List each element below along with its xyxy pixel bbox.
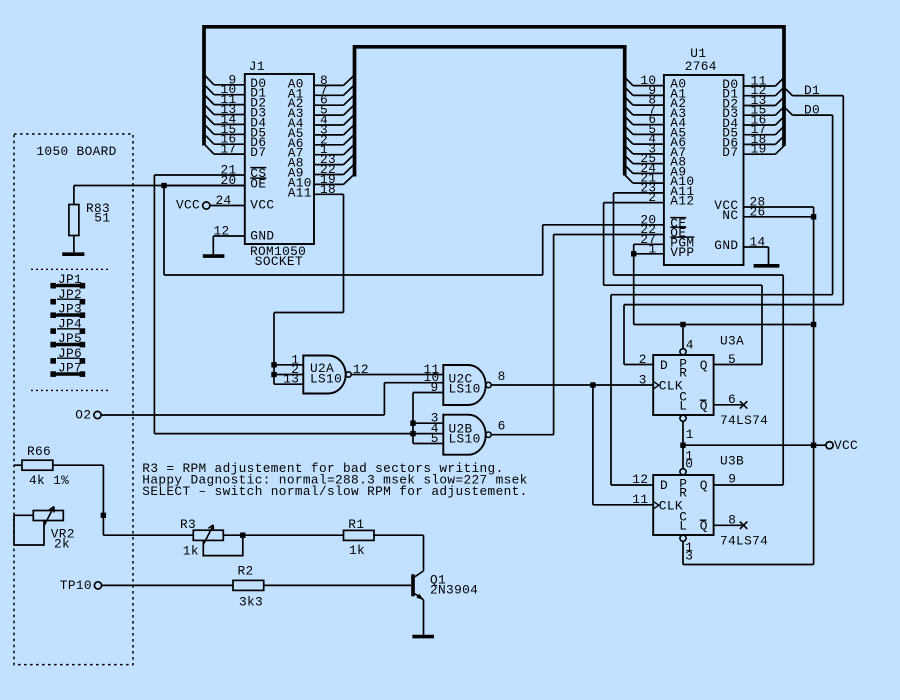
svg-text:2N3904: 2N3904 [430,583,478,598]
svg-text:8: 8 [498,369,506,384]
U1 pin 27 PGM lead (active-low) [634,232,695,251]
U1 pin 8 A2 lead with bus entry [624,93,686,112]
svg-text:D7: D7 [250,145,266,160]
J1 pin 6 A2 lead with bus entry [288,93,355,112]
U1 pin 16 D4 lead with bus entry [722,113,784,132]
U2C pin labels 11 10 9 8 [424,362,506,395]
U2A pin labels 1 2 13 12 [283,352,369,386]
svg-text:GND: GND [714,238,738,253]
jumper JP3 (closed) [50,302,85,318]
svg-text:3: 3 [685,549,693,564]
U3B pin 8 no-connect [714,522,748,529]
resistor R66 4k 1% [14,444,69,488]
svg-text:LS10: LS10 [310,371,342,386]
svg-text:74LS74: 74LS74 [720,413,768,428]
svg-text:GND: GND [250,229,274,244]
J1 pin 4 A4 lead with bus entry [288,113,355,132]
resistor R1 1k [344,517,375,558]
U3A pin labels 2 3 5 6 [639,352,736,407]
svg-text:19: 19 [751,142,767,157]
U1 pin 24 A9 lead with bus entry [624,161,686,180]
ground symbol below R83 [62,252,84,256]
ground symbol at U1 GND [754,264,780,268]
U1 pin 26 NC lead [722,204,813,223]
svg-text:26: 26 [750,204,766,219]
wire: U1.A11 to U3B.Q (pin 9) [614,193,784,485]
svg-text:1k: 1k [183,543,199,558]
junction at U3A clear / U3B preset [680,443,685,448]
junction at U2A pin 2 [271,372,276,377]
svg-text:0: 0 [685,457,693,472]
wire: R83 / J1.OE to U1.CE [74,186,664,276]
J1 pin 20 OE lead (active-low) [164,173,266,192]
junction at U1.VPP [631,251,636,256]
svg-text:1: 1 [648,241,656,256]
jumper JP6 (open) [50,346,85,364]
U1 pin 7 A3 lead with bus entry [624,102,686,121]
U3A pin 6 no-connect [714,401,748,408]
svg-text:D0: D0 [804,103,820,118]
svg-text:4k 1%: 4k 1% [29,473,69,488]
svg-text:12: 12 [214,224,230,239]
J1 pin 16 D6 lead with bus entry [204,132,266,151]
svg-text:NC: NC [722,208,738,223]
svg-text:Q: Q [700,478,708,493]
svg-text:A12: A12 [670,194,694,209]
J1 pin 2 A6 lead with bus entry [288,132,355,151]
J1 pin 17 D7 lead with bus entry [204,142,266,161]
junction at VCC rail / preset line [811,322,816,327]
junction at U2B pin 3 [410,421,415,426]
U1 pin 23 A11 lead [614,180,695,199]
svg-text:3: 3 [639,372,647,387]
svg-text:2764: 2764 [685,59,717,74]
svg-text:1k: 1k [349,543,365,558]
svg-text:VCC: VCC [176,198,200,213]
wire: R2 to Q1 base [264,584,412,586]
J1 pin 9 D0 lead with bus entry [204,72,266,91]
svg-text:L: L [679,398,687,413]
junction at R3 / R1 node [240,533,245,538]
svg-text:U3A: U3A [720,333,744,348]
note text block [142,461,527,499]
dotted separator above jumpers [31,268,108,270]
U1 pin 12 D1 lead with bus entry [722,83,784,102]
U3B pin 13 clear lead with bubble [685,540,693,564]
jumper JP5 (closed) [50,331,85,347]
U1 pin 13 D2 lead with bus entry [722,93,784,112]
U2B pin labels 3 4 5 6 [431,411,506,446]
wire: O2 to U2C input 10 [101,383,444,415]
svg-text:5: 5 [431,431,439,446]
svg-text:1050 BOARD: 1050 BOARD [36,144,116,159]
svg-text:VPP: VPP [670,245,694,260]
U3B pin labels 12 11 9 8 [632,472,736,528]
svg-text:24: 24 [216,193,232,208]
J1 pin 8 A0 lead with bus entry [288,73,355,92]
svg-text:74LS74: 74LS74 [720,533,768,548]
NAND gate U2C 74LS10 [443,365,491,405]
svg-text:LS10: LS10 [449,381,481,396]
net D0: tap off data bus to U3B.D (pin 12) [611,107,833,485]
wire: thick address bus J1.A0-A10 to U1.A0-A10 [355,47,625,177]
svg-text:2: 2 [639,352,647,367]
U3A pin 1 clear lead with bubble to VCC [683,421,694,445]
svg-text:J1: J1 [249,59,265,74]
svg-text:A11: A11 [288,185,312,200]
U1 pin 14 GND lead [714,235,768,265]
dotted separator below jumpers [31,389,108,391]
wire: node to R3 [103,534,193,536]
svg-text:13: 13 [283,372,299,387]
U1 pin 11 D0 lead with bus entry [722,74,784,93]
svg-text:D: D [660,358,668,373]
1050 BOARD dashed outline [14,134,133,665]
potentiometer R3 1k [180,517,223,559]
U3B pin 10 preset lead with bubble to VCC [683,445,693,471]
J1 pin 18 A11 lead [288,182,344,201]
wire: U2C output 8 to U3A.CLK and U3B.CLK [491,385,653,505]
net O2 input port [75,407,101,422]
U1 pin 4 A6 lead with bus entry [624,132,686,151]
ground symbol at Q1 emitter [412,635,434,639]
junction at U2C output / U3B clock drop [590,382,595,387]
U1 pin 28 VCC lead [714,195,813,214]
J1 pin 23 A8 lead with bus entry [288,152,355,171]
J1 pin 19 A10 lead with bus entry [288,172,355,191]
U1 pin 2 A12 lead [604,190,695,209]
svg-text:9: 9 [728,472,736,487]
J1 pin 14 D4 lead with bus entry [204,112,266,130]
svg-text:U3B: U3B [720,453,744,468]
svg-text:1: 1 [686,427,694,442]
svg-text:D1: D1 [804,83,820,98]
J1 pin 1 A7 lead with bus entry [288,142,355,161]
junction at J1.OE / R83 drop [161,183,166,188]
svg-text:2k: 2k [54,536,70,551]
wire: U2B output 6 to U1.OE [491,235,664,435]
J1 pin 15 D5 lead with bus entry [204,122,266,141]
svg-text:O2: O2 [75,407,91,422]
svg-text:6: 6 [498,419,506,434]
U3A pin 4 preset lead with bubble [683,325,694,353]
U1 pin 21 A10 lead with bus entry [624,171,694,190]
J1 pin 5 A3 lead with bus entry [288,103,355,122]
svg-text:D7: D7 [722,145,738,160]
resistor R83 51 [69,186,110,253]
ground symbol at J1 GND [203,254,225,258]
svg-text:9: 9 [431,380,439,395]
svg-text:17: 17 [221,142,237,157]
J1 pin 10 D1 lead with bus entry [204,82,266,101]
NAND gate U2A 74LS10 [303,356,351,394]
svg-text:SELECT – switch normal/slow RP: SELECT – switch normal/slow RPM for adju… [142,484,527,499]
svg-text:SOCKET: SOCKET [255,254,303,269]
wire: VR2 node down to R3 line [102,515,104,535]
wire: TP10 to R2 [101,584,233,586]
J1 pin 11 D2 lead with bus entry [204,92,266,111]
NAND gate U2B 74LS10 [443,415,491,455]
U1 pin 20 CE name (active-low) [640,212,686,231]
junction at U2A pin 1 [271,362,276,367]
U1 pin 10 A0 lead with bus entry [624,73,686,92]
junction at R66 / VR2 / R3 node [101,513,106,518]
jumper JP1 (closed) [50,272,85,288]
J1 pin 21 CS lead (active-low) [154,163,266,182]
svg-text:R3: R3 [180,517,196,532]
net VCC port with rail [683,438,858,453]
J1 pin 24 VCC with VCC port [176,193,274,213]
flip-flop U3A 74LS74 [653,349,713,422]
wire: J1.A11 to U2A inputs 1,2,13 [274,194,344,384]
wire: VCC rail vertical from U1.VCC down to U3B clear return [683,207,814,565]
U1 pin 6 A4 lead with bus entry [624,112,686,131]
jumper JP4 (open) [50,317,85,334]
svg-text:4: 4 [686,338,694,353]
U1 pin 9 A1 lead with bus entry [624,83,686,102]
U1 pin 25 A8 lead with bus entry [624,151,686,170]
J1 pin 13 D3 lead with bus entry [204,102,266,121]
J1 pin 22 A9 lead with bus entry [288,162,355,181]
svg-text:D: D [660,478,668,493]
wire: R3 wiper return hook [203,535,243,555]
wire: R3 node to R1 [243,534,344,536]
transistor Q1 2N3904 NPN [411,571,478,635]
svg-text:Q: Q [700,358,708,373]
J1 pin 12 GND lead [213,224,274,255]
svg-text:R2: R2 [238,563,254,578]
jumper JP7 (closed) [50,361,85,377]
U1 pin 18 D6 lead with bus entry [722,132,784,151]
U1 pin 1 VPP lead [634,241,695,260]
potentiometer VR2 2k [14,507,75,552]
flip-flop U3B 74LS74 [653,469,713,542]
wire: thick data bus J1.D0-D7 to U1.D0-D7 [204,27,784,146]
wire: U1.PGM + U1.VPP to VCC rail [634,244,814,324]
svg-text:VCC: VCC [834,438,858,453]
label ROM1050 SOCKET [250,244,306,269]
J1 pin 7 A1 lead with bus entry [288,83,355,102]
svg-text:VCC: VCC [250,198,274,213]
svg-text:18: 18 [320,182,336,197]
net TP10 test point port [60,578,102,593]
junction at U1 NC / VCC rail [811,214,816,219]
wire: R3 right lead [223,534,243,536]
EPROM U1 2764 body [664,75,744,265]
resistor R2 3k3 [233,563,264,609]
svg-text:2: 2 [648,190,656,205]
wire: R66 to VR2 junction [53,465,104,515]
svg-text:TP10: TP10 [60,578,92,593]
U1 pin 5 A5 lead with bus entry [624,122,686,141]
svg-text:LS10: LS10 [449,431,481,446]
svg-text:51: 51 [94,211,110,226]
wire: R1 to Q1 collector [373,535,424,571]
svg-text:3k3: 3k3 [239,595,263,610]
junction at VCC rail vertical [811,443,816,448]
svg-text:5: 5 [728,352,736,367]
J1 pin 3 A5 lead with bus entry [288,122,355,141]
svg-text:11: 11 [632,492,648,507]
U1 pin 17 D5 lead with bus entry [722,122,784,141]
U1 pin 15 D3 lead with bus entry [722,103,784,122]
junction at U3A preset drop [680,322,685,327]
svg-text:L: L [679,518,687,533]
U1 pin 19 D7 lead with bus entry [722,142,784,161]
U1 pin 22 OE name (active-low) [640,222,686,241]
svg-text:12: 12 [632,472,648,487]
wire: VR2 wiper return hook [14,515,44,545]
svg-text:R66: R66 [27,444,51,459]
jumper JP2 (open) [50,287,85,305]
wire: U1.A12 to U3A.Q (pin 5) [604,203,762,365]
net D1: tap off data bus to U3A.D (pin 2) [624,88,843,365]
wire: U2A output 12 to U2C input 11 [351,374,443,376]
junction at U2B pin 4 [410,431,415,436]
wire: J1.CS to U2B inputs 3,4,5 and U2C input 9 [154,175,443,444]
svg-text:R1: R1 [348,517,364,532]
connector J1 ROM1050 SOCKET body [245,74,314,244]
svg-text:14: 14 [750,235,766,250]
U1 pin 3 A7 lead with bus entry [624,141,686,160]
